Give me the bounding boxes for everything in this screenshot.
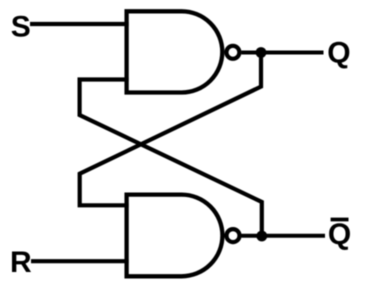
NAND gate U2 inversion bubble (227, 229, 240, 242)
svg-text:Q: Q (328, 218, 351, 251)
svg-text:Q: Q (327, 37, 350, 70)
wire U2 output to Qbar (241, 234, 325, 238)
wire S input to U1 upper input (30, 22, 129, 26)
wire Q feedback net: Q junction down, diagonal, left rail, to U2 upper input (80, 53, 261, 206)
label Qbar overline (331, 218, 349, 222)
junction node Qbar (256, 231, 267, 242)
wire Qbar feedback net: U1 lower input stub, left rail, diagonal, down to Qbar junction (80, 80, 262, 237)
NAND gate U2 body (127, 195, 223, 277)
svg-text:S: S (11, 11, 31, 44)
wire U1 output to Q (241, 51, 323, 55)
NAND gate U1 body (127, 11, 223, 92)
junction node Q (256, 47, 267, 58)
wire R input to U2 lower input (31, 259, 129, 263)
svg-text:R: R (10, 246, 32, 279)
NAND gate U1 inversion bubble (226, 46, 239, 59)
